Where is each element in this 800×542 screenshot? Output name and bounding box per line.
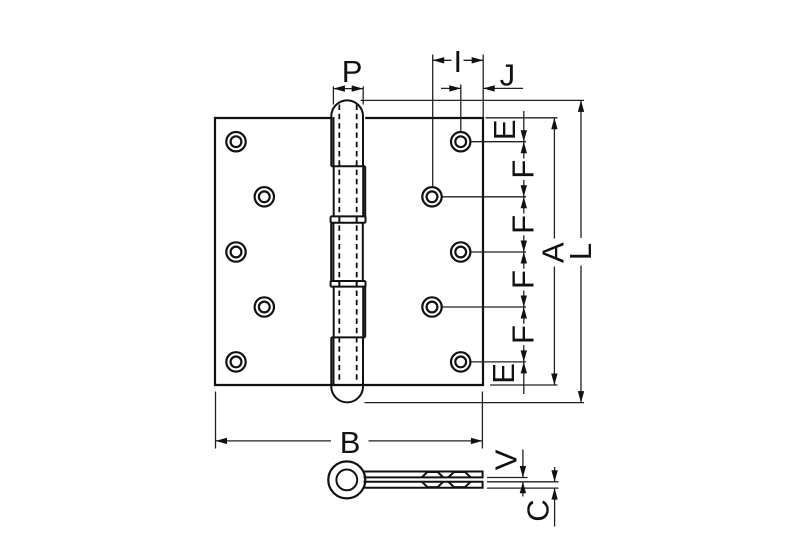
L arrows bbox=[578, 100, 584, 112]
hinge pin hidden lines bbox=[339, 105, 356, 383]
collar band 1 bbox=[331, 216, 366, 222]
svg-text:F: F bbox=[506, 160, 541, 179]
hole left col outer row1 bbox=[226, 132, 245, 151]
B arrows bbox=[216, 438, 228, 444]
I arrows bbox=[433, 57, 445, 63]
extension line barrel top bbox=[361, 99, 584, 101]
extension line plate bottom bbox=[490, 384, 558, 386]
hole right col outer row1 bbox=[451, 132, 470, 151]
top leaf edge-on bbox=[364, 472, 483, 478]
dim L line bbox=[580, 100, 582, 238]
svg-text:B: B bbox=[340, 425, 361, 460]
dim I extension lines bbox=[432, 55, 434, 189]
hole left col outer row3 bbox=[226, 242, 245, 261]
hinge leaf plate outline bbox=[215, 118, 483, 385]
chain tick arrows bbox=[521, 130, 527, 142]
hole right col outer row5 bbox=[451, 352, 470, 371]
knuckle 2 bbox=[333, 166, 335, 216]
dim J tick extension bbox=[460, 85, 462, 132]
collar band 2 bbox=[331, 281, 366, 287]
dim P line bbox=[333, 88, 363, 90]
extension line barrel bottom bbox=[365, 402, 585, 404]
dim C line bbox=[554, 467, 556, 482]
pin lines crossing collar bands (solid) bbox=[339, 216, 356, 286]
J arrows bbox=[449, 85, 461, 91]
hinge barrel knuckles bbox=[331, 100, 366, 402]
knuckle 5 bottom cap bbox=[331, 337, 363, 402]
E F chain line runs bbox=[523, 111, 525, 142]
hole left col outer row5 bbox=[226, 352, 245, 371]
svg-text:F: F bbox=[506, 270, 541, 289]
dim B extension lines bbox=[215, 392, 217, 449]
knuckle joint 1 bbox=[331, 165, 365, 167]
dim B line bbox=[216, 440, 332, 442]
dim I line bbox=[433, 59, 452, 61]
V arrows bbox=[520, 466, 526, 478]
crossing pattern bottom leaf bbox=[422, 482, 471, 487]
svg-text:C: C bbox=[521, 499, 556, 521]
dim J line bbox=[441, 87, 461, 89]
svg-text:E: E bbox=[486, 363, 521, 384]
dimension labels bbox=[340, 44, 598, 522]
svg-text:L: L bbox=[563, 243, 598, 260]
hole left col inner row2 bbox=[255, 187, 274, 206]
knuckle 1 top cap bbox=[331, 100, 363, 166]
knuckle 4 bbox=[333, 287, 335, 338]
svg-text:F: F bbox=[506, 325, 541, 344]
side view extension lines V C bbox=[487, 477, 528, 479]
svg-text:P: P bbox=[342, 54, 363, 89]
hole right col outer row3 bbox=[451, 242, 470, 261]
knuckle joint 2 bbox=[331, 336, 365, 338]
svg-text:F: F bbox=[506, 215, 541, 234]
dim V line bbox=[522, 450, 524, 478]
P arrows bbox=[333, 85, 345, 91]
C arrows bbox=[551, 470, 557, 482]
dim P extension lines bbox=[332, 86, 334, 104]
extension line plate top bbox=[486, 117, 558, 119]
hole left col inner row4 bbox=[255, 297, 274, 316]
svg-text:I: I bbox=[453, 44, 462, 79]
hole right col inner row4 bbox=[422, 297, 441, 316]
A arrows bbox=[551, 118, 557, 130]
dim A line bbox=[553, 118, 555, 239]
hole right col inner row2 bbox=[422, 187, 441, 206]
knuckle 3 bbox=[330, 223, 332, 281]
svg-text:V: V bbox=[489, 449, 524, 470]
screw holes bbox=[226, 132, 470, 372]
arrowheads bbox=[216, 57, 585, 500]
svg-text:E: E bbox=[487, 119, 522, 140]
bottom leaf edge-on bbox=[364, 482, 483, 488]
hole row extension lines bbox=[471, 141, 526, 143]
barrel end circle bbox=[328, 461, 365, 498]
svg-text:J: J bbox=[500, 58, 516, 93]
crossing pattern top leaf bbox=[422, 472, 471, 477]
